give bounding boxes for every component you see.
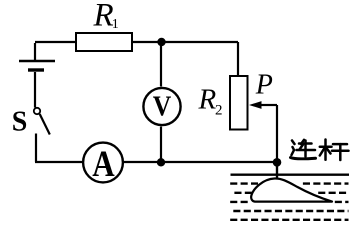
svg-text:R: R — [93, 0, 114, 33]
svg-text:A: A — [92, 145, 115, 185]
svg-text:P: P — [255, 70, 273, 101]
svg-text:S: S — [12, 107, 28, 138]
svg-text:R: R — [198, 84, 217, 116]
svg-text:2: 2 — [215, 103, 223, 119]
svg-text:1: 1 — [112, 17, 119, 32]
svg-text:V: V — [153, 90, 172, 122]
